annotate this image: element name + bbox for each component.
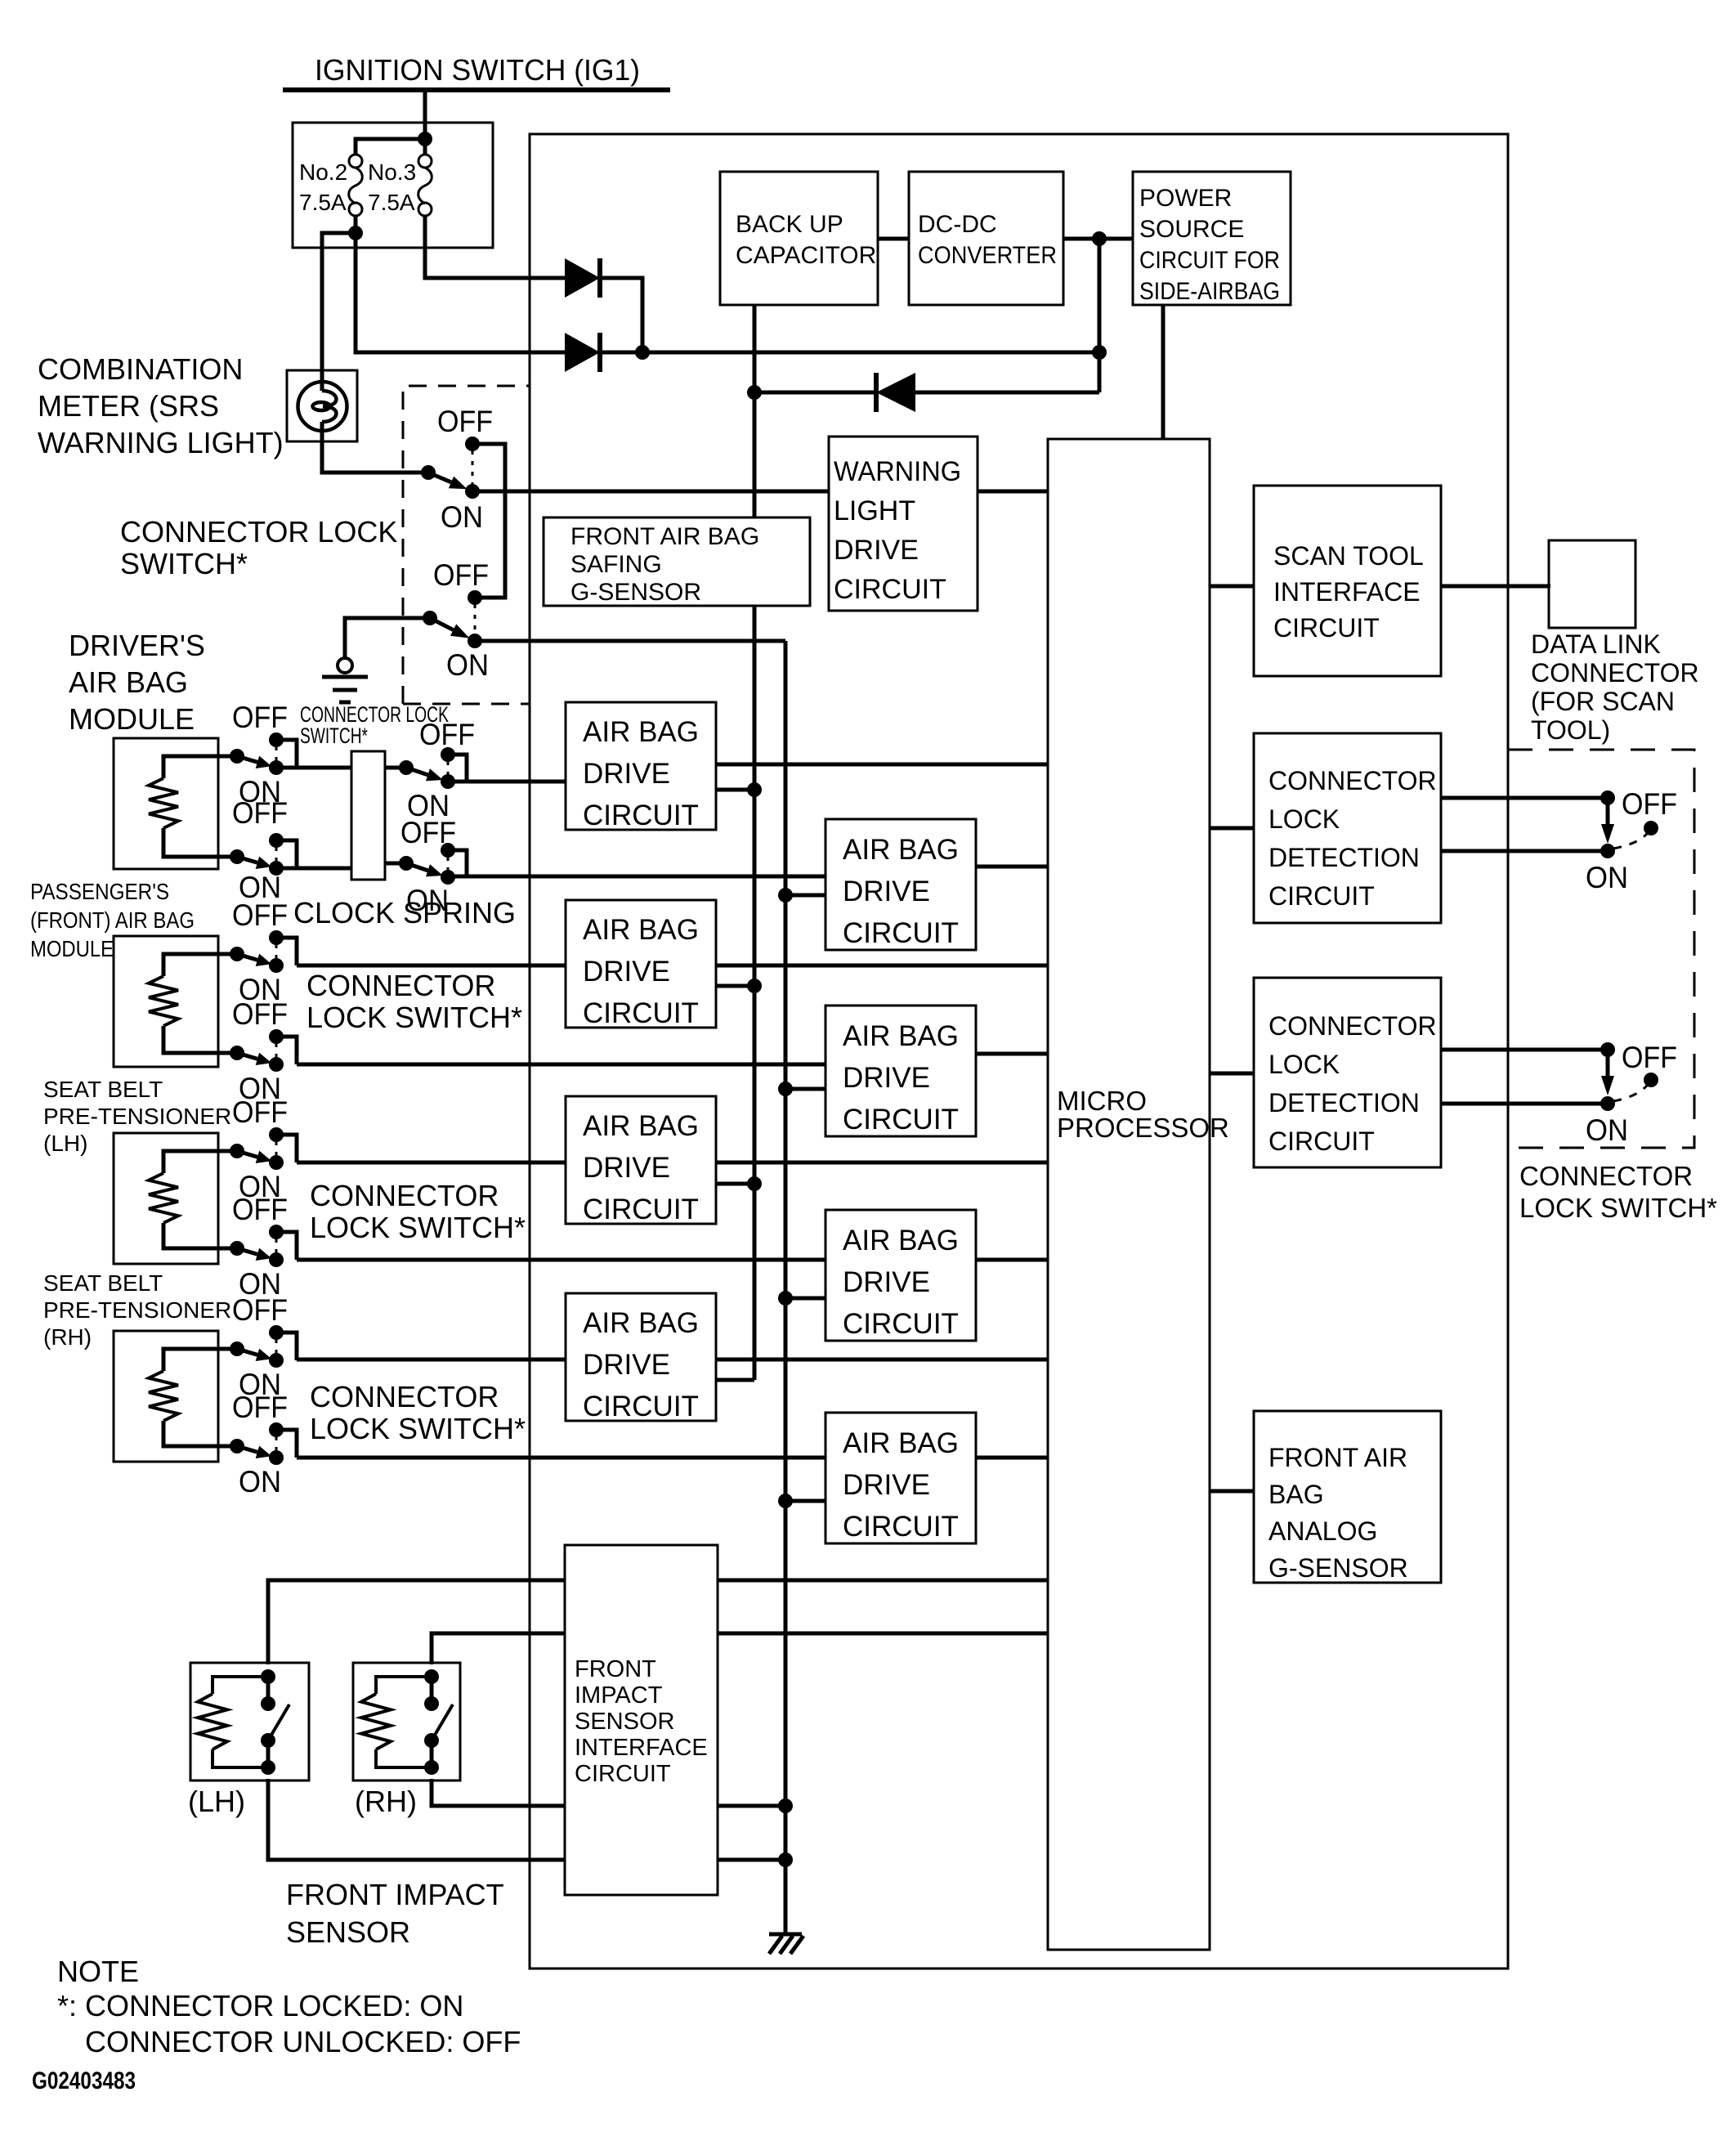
- svg-text:DRIVE: DRIVE: [583, 1349, 670, 1381]
- svg-text:PROCESSOR: PROCESSOR: [1057, 1113, 1229, 1143]
- svg-text:WARNING: WARNING: [834, 456, 961, 487]
- svg-text:OFF: OFF: [1622, 787, 1677, 821]
- svg-text:ON: ON: [446, 648, 489, 682]
- wire airbag drive G through line (pretensioner RH hi): [297, 1358, 1049, 1362]
- svg-text:CIRCUIT: CIRCUIT: [583, 997, 699, 1029]
- svg-text:(LH): (LH): [43, 1131, 87, 1156]
- svg-text:COMBINATION: COMBINATION: [38, 352, 243, 386]
- wire front impact sensor LH top to interface/microprocessor: [268, 1580, 1049, 1664]
- svg-text:7.5A: 7.5A: [299, 190, 347, 215]
- wire diode D3 to backup bus: [754, 391, 876, 395]
- junction dot below fuse No.2: [348, 226, 363, 240]
- junction dot D2 line to power node: [1092, 345, 1107, 360]
- wire connector lock detection 2 to switch OFF node: [1441, 1048, 1608, 1052]
- wire lower lock switch ON to ground bus: [475, 639, 785, 643]
- junction dot backup bus / drive C: [747, 979, 762, 993]
- svg-text:DRIVE: DRIVE: [583, 956, 670, 988]
- wire airbag drive G stub to backup bus end: [716, 1378, 754, 1382]
- svg-text:WARNING LIGHT): WARNING LIGHT): [38, 426, 284, 459]
- module box pretensioner LH: [114, 1133, 218, 1264]
- squib switch pretensioner RH upper (connector lock): [218, 1347, 237, 1351]
- wire airbag drive D stub from ground bus: [785, 1087, 825, 1091]
- wire front impact sensor RH low side to ground bus: [432, 1779, 785, 1806]
- svg-text:(FRONT) AIR BAG: (FRONT) AIR BAG: [30, 907, 195, 933]
- switch S1 arm: [428, 473, 451, 482]
- svg-text:DRIVE: DRIVE: [843, 1266, 930, 1298]
- svg-text:SOURCE: SOURCE: [1139, 216, 1244, 243]
- wire front impact sensor RH top to interface/microprocessor: [432, 1633, 1049, 1664]
- svg-text:DRIVER'S: DRIVER'S: [69, 629, 205, 662]
- svg-text:DRIVE: DRIVE: [583, 758, 670, 790]
- switch connector lock (scan side) R2: [1606, 1056, 1610, 1076]
- svg-text:CIRCUIT: CIRCUIT: [583, 1194, 699, 1225]
- svg-text:OFF: OFF: [232, 1193, 288, 1226]
- clock spring output switch upper: [385, 766, 406, 770]
- fuse box: [293, 123, 493, 248]
- svg-text:MODULE: MODULE: [69, 702, 195, 736]
- svg-text:DRIVE: DRIVE: [843, 1469, 930, 1501]
- svg-text:G-SENSOR: G-SENSOR: [1268, 1553, 1408, 1583]
- ignition switch bus bar: [283, 87, 670, 92]
- svg-text:AIR BAG: AIR BAG: [583, 914, 699, 946]
- switch S2 ground connector lock - pivot dot: [423, 611, 437, 625]
- wire No.2 fuse to junction below: [354, 216, 358, 235]
- wire power source circuit to microprocessor top: [1161, 305, 1166, 439]
- svg-text:OFF: OFF: [232, 898, 288, 932]
- svg-text:CONNECTOR UNLOCKED: OFF: CONNECTOR UNLOCKED: OFF: [85, 2025, 521, 2058]
- wire meter switch OFF to lower switch OFF: [472, 444, 505, 598]
- svg-text:(RH): (RH): [355, 1785, 417, 1818]
- svg-text:AIR BAG: AIR BAG: [583, 1110, 699, 1142]
- svg-text:CONNECTOR: CONNECTOR: [1268, 766, 1437, 795]
- block AIR BAG DRIVE CIRCUIT G: [566, 1293, 716, 1421]
- module box passenger airbag: [114, 936, 218, 1067]
- svg-text:INTERFACE: INTERFACE: [1273, 577, 1421, 607]
- combination meter SRS warning lamp: [287, 370, 357, 441]
- wire airbag drive C stub to backup bus: [716, 984, 754, 988]
- switch S2 ON contact: [468, 634, 482, 648]
- svg-text:OFF: OFF: [232, 1391, 288, 1424]
- svg-text:PASSENGER'S: PASSENGER'S: [30, 879, 169, 904]
- svg-text:DRIVE: DRIVE: [583, 1152, 670, 1184]
- svg-text:(RH): (RH): [43, 1324, 92, 1350]
- block BACK UP CAPACITOR: [720, 172, 878, 305]
- svg-text:No.3: No.3: [368, 159, 416, 185]
- svg-text:ON: ON: [406, 884, 449, 917]
- airbag ECU outer box: [530, 134, 1508, 1969]
- switch S1 ON contact: [465, 484, 480, 499]
- svg-text:SAFING: SAFING: [570, 551, 662, 578]
- svg-text:CLOCK SPRING: CLOCK SPRING: [293, 896, 516, 929]
- svg-text:DRIVE: DRIVE: [843, 1062, 930, 1094]
- wire connector lock detection 1 to switch ON node: [1441, 849, 1608, 853]
- svg-text:CAPACITOR: CAPACITOR: [736, 242, 876, 269]
- wire front impact sensor LH low side to ground bus: [268, 1779, 785, 1860]
- dashed enclosure connector lock switch (right): [1508, 750, 1694, 1148]
- svg-text:(FOR SCAN: (FOR SCAN: [1531, 687, 1675, 716]
- switch S1 OFF contact: [465, 437, 480, 451]
- svg-text:AIR BAG: AIR BAG: [843, 834, 959, 866]
- diode D2: [565, 333, 600, 372]
- svg-text:LOCK SWITCH*: LOCK SWITCH*: [310, 1412, 526, 1445]
- svg-text:AIR BAG: AIR BAG: [69, 665, 188, 699]
- svg-text:OFF: OFF: [437, 405, 493, 438]
- svg-text:OFF: OFF: [400, 816, 456, 849]
- svg-text:DC-DC: DC-DC: [918, 211, 997, 238]
- svg-text:AIR BAG: AIR BAG: [843, 1225, 959, 1256]
- svg-text:FRONT AIR BAG: FRONT AIR BAG: [570, 523, 759, 550]
- svg-text:CIRCUIT FOR: CIRCUIT FOR: [1139, 247, 1280, 274]
- junction dot backup bus / diode D3: [747, 385, 762, 400]
- clock spring output switch lower: [385, 862, 406, 866]
- svg-text:CIRCUIT: CIRCUIT: [1273, 613, 1380, 643]
- svg-text:CONVERTER: CONVERTER: [918, 242, 1057, 269]
- block MICRO PROCESSOR: [1048, 439, 1210, 1950]
- wire airbag drive A input (driver squib hi): [448, 780, 566, 784]
- ground symbol (signal ground): [338, 658, 352, 673]
- wire airbag drive H stub from ground bus: [785, 1499, 825, 1503]
- module box pretensioner RH: [114, 1331, 218, 1462]
- svg-text:MODULE: MODULE: [30, 936, 114, 961]
- wire airbag drive D input (passenger lo): [297, 1063, 825, 1067]
- svg-text:CIRCUIT: CIRCUIT: [834, 574, 946, 605]
- wire node to diode D3: [915, 391, 1099, 395]
- svg-text:LOCK SWITCH*: LOCK SWITCH*: [306, 1001, 522, 1034]
- backup capacitor bus (safing sensor feed): [753, 305, 757, 1380]
- wire microprocessor to scan tool interface: [1210, 585, 1254, 589]
- wire connector lock detection 2 to switch ON node: [1441, 1102, 1608, 1106]
- wire airbag drive A output to microprocessor: [716, 763, 1049, 767]
- svg-text:CONNECTOR LOCK: CONNECTOR LOCK: [120, 515, 397, 549]
- svg-text:AIR BAG: AIR BAG: [843, 1427, 959, 1459]
- svg-text:ON: ON: [1586, 861, 1628, 894]
- svg-text:ON: ON: [1586, 1113, 1628, 1147]
- svg-text:MICRO: MICRO: [1057, 1086, 1147, 1116]
- svg-text:CONNECTOR: CONNECTOR: [310, 1380, 499, 1413]
- svg-text:FRONT: FRONT: [575, 1656, 656, 1682]
- svg-text:OFF: OFF: [232, 701, 288, 734]
- svg-text:FRONT IMPACT: FRONT IMPACT: [286, 1878, 504, 1911]
- svg-text:CIRCUIT: CIRCUIT: [575, 1761, 671, 1787]
- wire fuse junction to No.2 fuse: [356, 139, 425, 155]
- svg-text:*: CONNECTOR LOCKED: ON: *: CONNECTOR LOCKED: ON: [57, 1989, 463, 2022]
- squib switch pretensioner LH upper (connector lock): [218, 1149, 237, 1153]
- wire warning light drive circuit to microprocessor: [978, 490, 1049, 494]
- switch S1 meter connector lock - pivot dot: [421, 465, 436, 480]
- svg-text:LOCK: LOCK: [1268, 804, 1340, 834]
- wire airbag drive A stub to backup bus: [716, 788, 754, 792]
- switch S2 arm: [430, 618, 454, 630]
- wire lamp to meter switch: [322, 441, 428, 473]
- squib switch passenger airbag upper (connector lock): [218, 952, 237, 956]
- svg-text:OFF: OFF: [1622, 1041, 1677, 1074]
- svg-text:LOCK: LOCK: [1268, 1050, 1340, 1079]
- block DC-DC CONVERTER: [909, 172, 1063, 305]
- svg-text:CIRCUIT: CIRCUIT: [583, 1391, 699, 1422]
- ground symbol (chassis, ECU): [769, 1933, 802, 1937]
- wire scan tool interface to data link connector: [1441, 585, 1550, 589]
- svg-text:CIRCUIT: CIRCUIT: [1268, 1127, 1375, 1156]
- svg-text:OFF: OFF: [433, 558, 489, 592]
- svg-text:BAG: BAG: [1268, 1480, 1324, 1509]
- svg-text:SENSOR: SENSOR: [575, 1709, 674, 1735]
- wire airbag drive E stub to backup bus: [716, 1182, 754, 1186]
- svg-text:CIRCUIT: CIRCUIT: [583, 800, 699, 831]
- svg-text:CIRCUIT: CIRCUIT: [843, 1308, 959, 1340]
- squib switch passenger airbag lower (connector lock): [218, 1051, 237, 1055]
- wire junction to SRS warning lamp: [322, 233, 356, 372]
- svg-text:DRIVE: DRIVE: [843, 876, 930, 907]
- svg-text:ON: ON: [441, 500, 483, 534]
- wire diode D1 cathode to node: [597, 278, 642, 352]
- junction dot ground bus / drive B: [778, 888, 793, 903]
- wire diode D2 cathode along to DC-DC node: [597, 351, 1099, 355]
- wire junction to diode D2 anode: [356, 233, 567, 352]
- block AIR BAG DRIVE CIRCUIT A: [566, 702, 716, 830]
- wire microprocessor to front airbag analog G-sensor: [1210, 1489, 1254, 1494]
- svg-text:OFF: OFF: [232, 997, 288, 1031]
- svg-text:AIR BAG: AIR BAG: [583, 716, 699, 748]
- svg-text:G-SENSOR: G-SENSOR: [570, 579, 701, 606]
- block FRONT AIR BAG ANALOG G-SENSOR: [1254, 1411, 1441, 1583]
- switch S2 dashed gap: [474, 604, 477, 635]
- block AIR BAG DRIVE CIRCUIT F: [825, 1210, 976, 1341]
- wire airbag drive B stub from ground bus: [785, 894, 825, 898]
- svg-text:FRONT AIR: FRONT AIR: [1268, 1443, 1407, 1472]
- svg-text:CIRCUIT: CIRCUIT: [843, 1104, 959, 1135]
- wire lower lock switch to ground: [345, 618, 430, 658]
- svg-text:CONNECTOR: CONNECTOR: [1531, 658, 1699, 688]
- svg-text:CONNECTOR: CONNECTOR: [306, 969, 495, 1002]
- svg-text:BACK UP: BACK UP: [736, 211, 843, 238]
- switch S2 OFF contact: [468, 590, 482, 605]
- svg-text:CIRCUIT: CIRCUIT: [843, 917, 959, 949]
- svg-text:IMPACT: IMPACT: [575, 1682, 663, 1709]
- data link connector square: [1549, 540, 1635, 628]
- svg-text:METER (SRS: METER (SRS: [38, 389, 219, 423]
- svg-text:LIGHT: LIGHT: [834, 495, 915, 526]
- svg-text:IGNITION SWITCH (IG1): IGNITION SWITCH (IG1): [315, 53, 640, 87]
- svg-text:AIR BAG: AIR BAG: [583, 1307, 699, 1339]
- vertical wire DC-DC node down: [1098, 239, 1102, 392]
- svg-text:ANALOG: ANALOG: [1268, 1516, 1377, 1546]
- svg-text:OFF: OFF: [232, 1293, 288, 1327]
- svg-text:SCAN TOOL: SCAN TOOL: [1273, 541, 1424, 571]
- block SCAN TOOL INTERFACE CIRCUIT: [1254, 486, 1441, 676]
- clock spring box: [351, 751, 385, 880]
- front impact sensor RH: [353, 1663, 460, 1780]
- block AIR BAG DRIVE CIRCUIT H: [825, 1413, 976, 1543]
- wire DC-DC converter to power source circuit: [1063, 237, 1133, 241]
- junction dot backup bus / drive A: [747, 782, 762, 797]
- block AIR BAG DRIVE CIRCUIT E: [566, 1096, 716, 1224]
- block WARNING LIGHT DRIVE CIRCUIT: [829, 437, 978, 611]
- wire airbag drive B output to microprocessor: [976, 865, 1049, 869]
- switch S1 dashed gap: [472, 450, 474, 486]
- wire backup capacitor to DC-DC converter: [878, 237, 909, 241]
- svg-text:DRIVE: DRIVE: [834, 535, 919, 566]
- svg-text:CONNECTOR: CONNECTOR: [1519, 1161, 1693, 1191]
- svg-text:TOOL): TOOL): [1531, 715, 1610, 745]
- squib switch pretensioner RH lower (connector lock): [218, 1445, 237, 1449]
- squib switch driver airbag lower (connector lock): [218, 855, 237, 859]
- diode D3 (reverse to power source node): [876, 373, 915, 412]
- block FRONT IMPACT SENSOR INTERFACE CIRCUIT: [565, 1545, 718, 1895]
- svg-text:POWER: POWER: [1139, 185, 1232, 212]
- block AIR BAG DRIVE CIRCUIT D: [825, 1006, 976, 1136]
- wire airbag drive C through line (passenger hi): [297, 964, 1049, 968]
- svg-text:NOTE: NOTE: [57, 1955, 139, 1988]
- svg-text:OFF: OFF: [419, 718, 475, 751]
- svg-text:G02403483: G02403483: [32, 2067, 136, 2094]
- svg-text:PRE-TENSIONER: PRE-TENSIONER: [43, 1104, 231, 1129]
- svg-text:SENSOR: SENSOR: [286, 1915, 410, 1949]
- svg-text:7.5A: 7.5A: [368, 190, 415, 215]
- svg-text:DETECTION: DETECTION: [1268, 1088, 1420, 1118]
- svg-text:CONNECTOR: CONNECTOR: [310, 1179, 499, 1212]
- block CONNECTOR LOCK DETECTION CIRCUIT 2: [1254, 978, 1441, 1167]
- svg-text:LOCK SWITCH*: LOCK SWITCH*: [310, 1211, 526, 1244]
- svg-text:CIRCUIT: CIRCUIT: [843, 1511, 959, 1543]
- wire ignition feed to fuse box: [423, 90, 427, 155]
- front impact sensor LH: [190, 1663, 309, 1780]
- block AIR BAG DRIVE CIRCUIT C: [566, 900, 716, 1028]
- fuse No.2 7.5A: [349, 155, 362, 168]
- wire airbag drive E through line (pretensioner LH hi): [297, 1161, 1049, 1165]
- junction dot ground bus / sensor LH: [778, 1852, 793, 1867]
- junction dot fuse feed: [418, 132, 432, 146]
- junction dot D1/D2 node: [635, 345, 650, 360]
- dashed enclosure connector lock switch (meter): [403, 386, 530, 704]
- wire airbag drive D output to microprocessor: [976, 1052, 1049, 1056]
- svg-text:SWITCH*: SWITCH*: [300, 723, 368, 748]
- junction dot ground bus / drive D: [778, 1082, 793, 1096]
- svg-text:DATA LINK: DATA LINK: [1531, 629, 1661, 659]
- wire No.3 fuse to diode D1 anode: [425, 216, 567, 278]
- svg-text:DETECTION: DETECTION: [1268, 843, 1420, 872]
- svg-text:SWITCH*: SWITCH*: [120, 547, 248, 580]
- svg-text:No.2: No.2: [299, 159, 347, 185]
- svg-text:INTERFACE: INTERFACE: [575, 1735, 708, 1761]
- wire meter switch ON to warning light drive circuit: [472, 490, 829, 494]
- svg-text:SEAT BELT: SEAT BELT: [43, 1077, 163, 1102]
- squib switch pretensioner LH lower (connector lock): [218, 1247, 237, 1251]
- wire microprocessor to connector lock detection 1: [1210, 826, 1254, 831]
- block FRONT AIR BAG SAFING G-SENSOR: [544, 517, 810, 606]
- svg-text:CONNECTOR: CONNECTOR: [1268, 1011, 1437, 1041]
- svg-text:OFF: OFF: [232, 796, 288, 830]
- junction dot backup bus / drive E: [747, 1176, 762, 1191]
- block AIR BAG DRIVE CIRCUIT B: [825, 819, 976, 950]
- squib switch driver airbag upper (connector lock): [218, 755, 237, 759]
- svg-text:ON: ON: [239, 1465, 281, 1498]
- svg-text:CIRCUIT: CIRCUIT: [1268, 881, 1375, 911]
- block CONNECTOR LOCK DETECTION CIRCUIT 1: [1254, 733, 1441, 923]
- svg-text:PRE-TENSIONER: PRE-TENSIONER: [43, 1297, 231, 1323]
- svg-text:OFF: OFF: [232, 1095, 288, 1129]
- svg-text:LOCK SWITCH*: LOCK SWITCH*: [1519, 1193, 1717, 1223]
- wire airbag drive F through line (pretensioner LH lo): [297, 1258, 1049, 1262]
- svg-text:(LH): (LH): [188, 1785, 245, 1818]
- junction dot DC-DC output: [1092, 231, 1107, 246]
- svg-text:SEAT BELT: SEAT BELT: [43, 1270, 163, 1296]
- wire connector lock detection 1 to switch OFF node: [1441, 796, 1608, 800]
- junction dot ground bus / sensor RH: [778, 1798, 793, 1813]
- wire microprocessor to connector lock detection 2: [1210, 1072, 1254, 1076]
- ground bus: [784, 641, 788, 1934]
- wire airbag drive H through line (pretensioner RH lo): [297, 1456, 1049, 1460]
- module box driver airbag: [114, 738, 218, 869]
- switch connector lock (scan side) R1: [1606, 804, 1610, 824]
- diode D1: [565, 258, 600, 298]
- wire airbag drive F stub from ground bus: [785, 1297, 825, 1301]
- svg-text:SIDE-AIRBAG: SIDE-AIRBAG: [1139, 278, 1280, 305]
- fuse No.3 7.5A: [418, 155, 432, 168]
- block POWER SOURCE CIRCUIT FOR SIDE-AIRBAG: [1133, 172, 1291, 305]
- junction dot ground bus / drive F: [778, 1291, 793, 1306]
- junction dot ground bus / drive H: [778, 1494, 793, 1508]
- wire airbag drive B input (driver squib lo): [448, 875, 825, 879]
- svg-text:AIR BAG: AIR BAG: [843, 1020, 959, 1052]
